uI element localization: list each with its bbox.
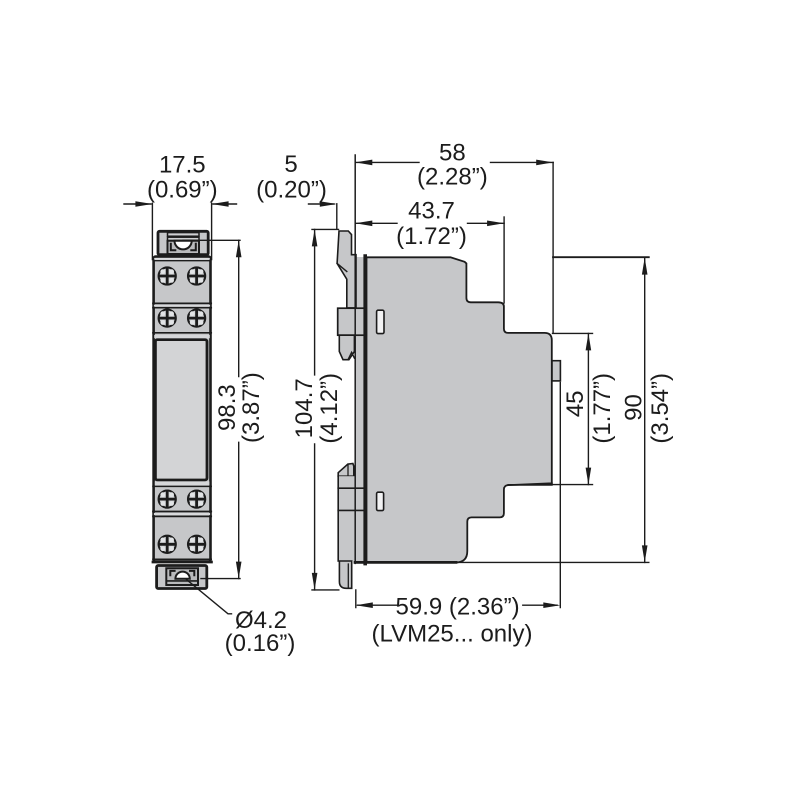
dim 43.7 right extension (503, 217, 505, 303)
bottom clip lower foot (339, 561, 351, 588)
line below window strip (153, 485, 211, 487)
svg-text:(0.16”): (0.16”) (225, 630, 296, 657)
light strip between lower separators (154, 513, 210, 515)
svg-text:(3.87”): (3.87”) (238, 372, 265, 443)
screw terminals row 3 (159, 491, 176, 508)
side body bottom thick edge (355, 561, 456, 564)
svg-text:(4.12”): (4.12”) (316, 373, 343, 444)
svg-text:104.7: 104.7 (291, 378, 318, 438)
top DIN clip side view (337, 231, 356, 308)
dim 59.9 extensions (356, 383, 561, 608)
bottom clip body (338, 476, 364, 561)
dim 58 right extension (552, 162, 554, 333)
dim 5 arrow (309, 203, 335, 205)
dim 17.5 right arrow (213, 203, 237, 205)
screw terminals row 2 (159, 310, 176, 327)
top clip hook (339, 335, 354, 360)
dim 58 line and arrows (355, 161, 553, 163)
dim 43.7 line and arrows (355, 222, 504, 224)
dim 59.9 left arrow (358, 604, 398, 606)
side view body outline (367, 257, 552, 562)
terminal separator lines upper (153, 302, 211, 304)
dim 104.7 line and arrows (314, 229, 316, 590)
svg-text:(0.69”): (0.69”) (147, 176, 218, 203)
svg-text:(1.72”): (1.72”) (396, 223, 467, 250)
dim 98.3 line and arrows (238, 240, 240, 578)
light strip between upper separators (154, 305, 210, 307)
terminal separator lines lower (153, 511, 211, 513)
light strip below top edge (154, 258, 210, 260)
svg-text:(2.28”): (2.28”) (417, 164, 488, 191)
top DIN tab front view (158, 231, 208, 254)
svg-text:59.9 (2.36”): 59.9 (2.36”) (396, 593, 520, 620)
bottom thin line (153, 558, 211, 560)
right small tab on side body (552, 361, 560, 381)
svg-text:43.7: 43.7 (408, 197, 455, 224)
dim 59.9 right arrow (523, 604, 557, 606)
leader line for hole callout (187, 580, 232, 614)
svg-text:(LVM25... only): (LVM25... only) (372, 620, 533, 647)
side body front thick edge (363, 256, 367, 564)
top clip block (338, 308, 367, 335)
front body bottom edge thick (153, 561, 211, 564)
svg-text:(1.77”): (1.77”) (589, 373, 616, 444)
svg-text:98.3: 98.3 (214, 384, 241, 431)
lower slot on side body (377, 492, 384, 510)
dim 98.3 references (183, 240, 240, 578)
front body top thin line (154, 260, 211, 262)
dim 45 references (553, 333, 593, 484)
screw terminals row 1 (159, 267, 176, 284)
light strip above window (154, 335, 210, 338)
side panel strip (355, 257, 364, 563)
dim 45 line and arrows (587, 333, 589, 484)
svg-text:(0.20”): (0.20”) (256, 176, 327, 203)
svg-text:17.5: 17.5 (159, 152, 206, 179)
svg-text:5: 5 (284, 151, 297, 178)
svg-text:(3.54”): (3.54”) (647, 373, 674, 444)
dim 90 line and arrows (644, 258, 646, 563)
dim 104.7 references (312, 229, 339, 590)
svg-text:45: 45 (562, 390, 589, 417)
bottom DIN clip side view (338, 464, 354, 477)
bottom reference extension to 90 dim (456, 561, 649, 563)
upper slot on side body (377, 310, 384, 333)
DIN rail line (354, 155, 356, 563)
dim 17.5 left arrow (124, 203, 151, 205)
front view body (154, 257, 211, 562)
step edge fix line (508, 483, 552, 485)
line above window (153, 332, 211, 334)
svg-text:90: 90 (621, 394, 648, 421)
svg-text:58: 58 (439, 140, 466, 167)
screw terminals row 4 (159, 536, 176, 553)
dim 17.5 extension lines (152, 203, 211, 259)
dim 90 reference top (553, 256, 649, 258)
front window (155, 340, 207, 480)
light strip below window (155, 481, 210, 485)
bottom DIN tab front view (157, 566, 207, 589)
